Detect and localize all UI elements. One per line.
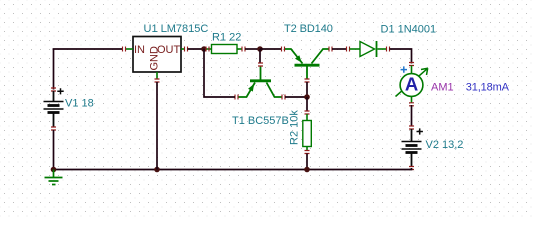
- node junction: [304, 167, 310, 173]
- battery V2: [409, 126, 414, 129]
- svg-text:R2 10k: R2 10k: [289, 110, 301, 145]
- svg-text:AM1: AM1: [431, 82, 454, 94]
- node junction: [154, 167, 160, 173]
- wire: [285, 96, 307, 98]
- U1 pin OUT stub: [181, 48, 185, 50]
- wire: [204, 49, 235, 97]
- wire: [260, 48, 282, 50]
- transistor T2 BD140: [285, 49, 330, 79]
- wire U1 GND down: [156, 82, 158, 170]
- svg-text:V2 13,2: V2 13,2: [426, 139, 464, 151]
- svg-text:GND: GND: [148, 46, 160, 71]
- ammeter plus polarity: [401, 66, 407, 72]
- svg-text:D1 1N4001: D1 1N4001: [381, 24, 437, 36]
- wire: [306, 154, 308, 170]
- svg-text:T1 BC557B: T1 BC557B: [232, 115, 289, 127]
- regulator U1 LM7815C box: [133, 37, 181, 73]
- U1 pin IN stub: [126, 48, 134, 50]
- ground: [45, 170, 63, 185]
- node junction: [304, 94, 310, 100]
- svg-text:V1 18: V1 18: [65, 98, 94, 110]
- svg-text:R1 22: R1 22: [212, 32, 241, 44]
- wire bottom bus: [54, 169, 413, 171]
- wire: [259, 49, 261, 63]
- wire: [245, 48, 260, 50]
- diode D1 1N4001: [347, 47, 350, 52]
- resistor R1: [206, 48, 212, 50]
- wire: [306, 82, 308, 97]
- wire: [411, 105, 413, 126]
- wire: [53, 49, 55, 90]
- svg-text:T2 BD140: T2 BD140: [284, 23, 333, 35]
- wire: [53, 48, 123, 50]
- wire: [390, 49, 412, 64]
- wire: [306, 97, 308, 111]
- wire: [188, 48, 205, 50]
- resistor R2: [305, 111, 310, 114]
- transistor T1 BC557B: [238, 66, 282, 97]
- svg-text:31,18mA: 31,18mA: [466, 82, 510, 94]
- wire: [53, 130, 55, 170]
- node junction: [257, 46, 263, 52]
- svg-text:U1 LM7815C: U1 LM7815C: [144, 23, 209, 35]
- U1 pin GND stub: [156, 72, 158, 79]
- wire: [332, 48, 347, 50]
- svg-text:OUT: OUT: [157, 44, 181, 56]
- ammeter AM1: [409, 63, 414, 66]
- svg-text:A: A: [405, 74, 418, 95]
- battery V2 plus: [417, 128, 423, 134]
- node junction: [201, 46, 207, 52]
- svg-text:IN: IN: [134, 44, 145, 56]
- wire: [411, 168, 413, 170]
- battery V1: [51, 88, 56, 91]
- battery V1 plus: [57, 88, 63, 94]
- node junction: [51, 167, 57, 173]
